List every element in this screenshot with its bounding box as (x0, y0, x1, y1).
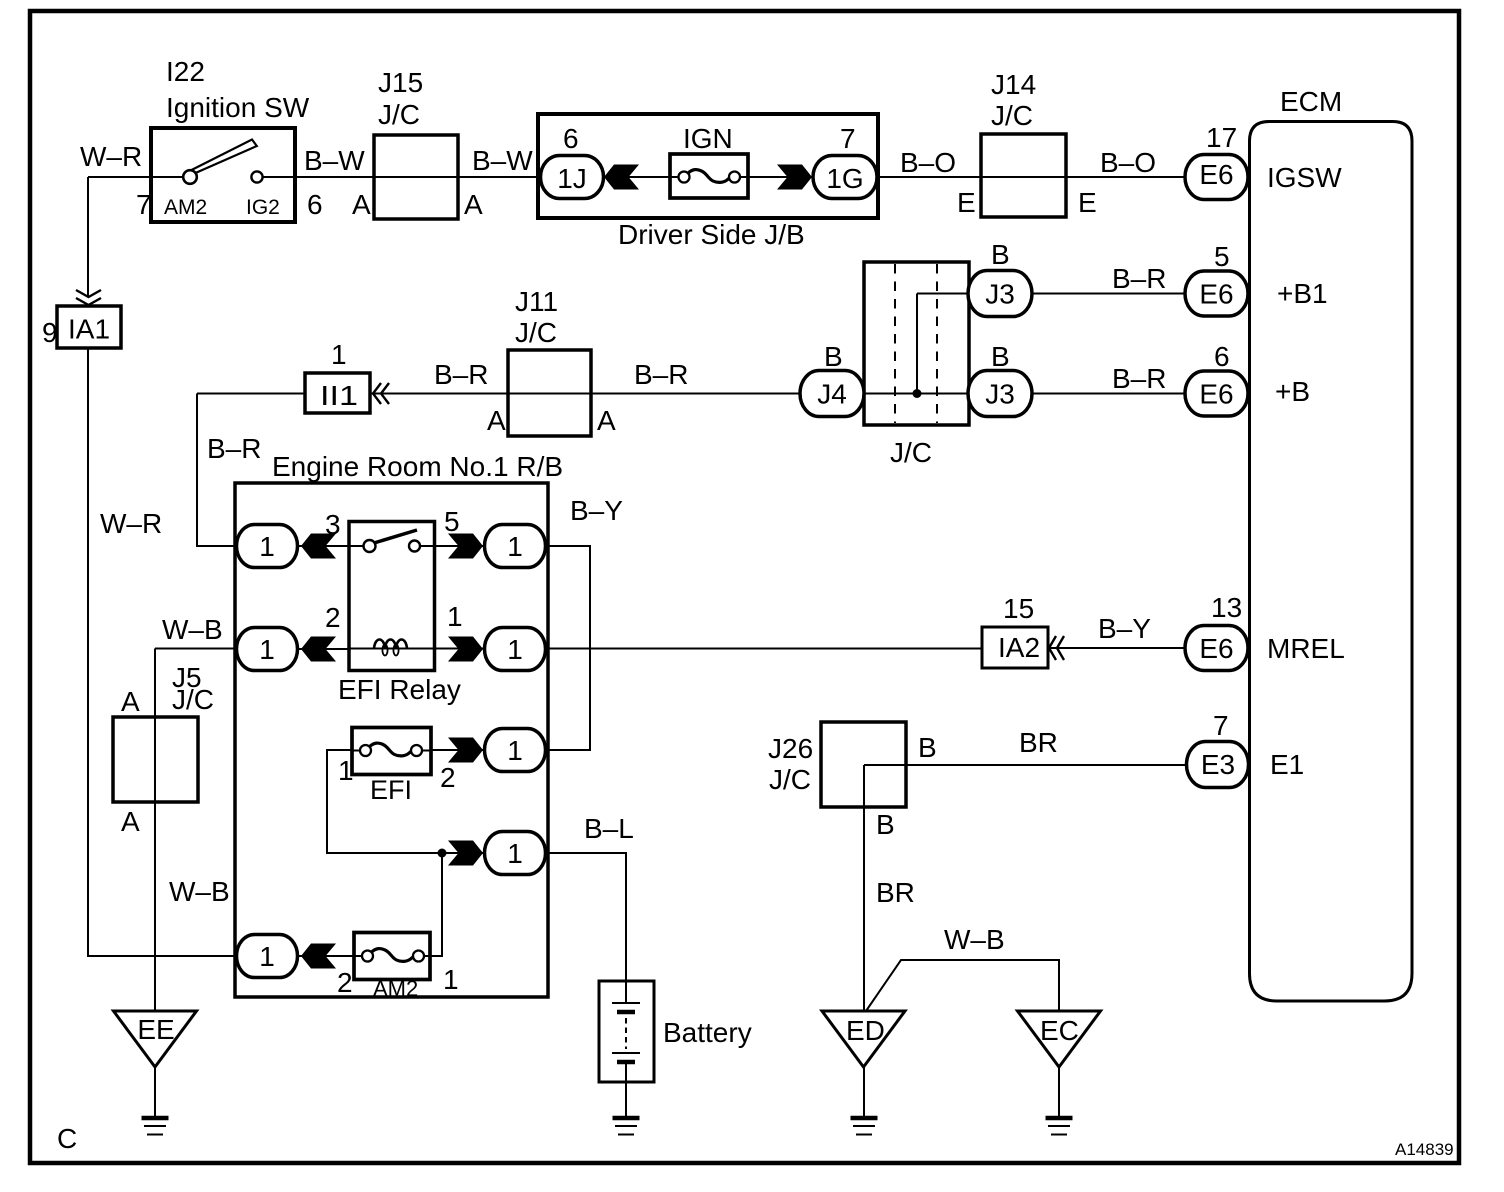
svg-text:B: B (824, 341, 843, 372)
svg-text:B–L: B–L (584, 813, 634, 844)
svg-text:A: A (121, 806, 140, 837)
svg-text:2: 2 (337, 967, 353, 998)
svg-text:J/C: J/C (378, 99, 420, 130)
svg-text:J/C: J/C (515, 317, 557, 348)
svg-text:B–R: B–R (1112, 263, 1166, 294)
svg-text:BR: BR (876, 877, 915, 908)
svg-text:E6: E6 (1199, 159, 1233, 190)
svg-text:E6: E6 (1199, 279, 1233, 310)
svg-text:B–R: B–R (207, 433, 261, 464)
svg-text:J14: J14 (991, 69, 1036, 100)
svg-text:2: 2 (440, 762, 456, 793)
svg-text:B: B (991, 341, 1010, 372)
svg-text:J4: J4 (817, 379, 847, 410)
svg-text:W–R: W–R (100, 508, 162, 539)
svg-text:E: E (1078, 187, 1097, 218)
svg-text:1: 1 (443, 964, 459, 995)
svg-text:A: A (487, 405, 506, 436)
svg-text:15: 15 (1003, 593, 1034, 624)
svg-text:W–B: W–B (169, 876, 230, 907)
svg-text:B–R: B–R (434, 359, 488, 390)
svg-text:MREL: MREL (1267, 633, 1345, 664)
svg-text:EC: EC (1040, 1015, 1079, 1046)
svg-text:B–Y: B–Y (1098, 613, 1151, 644)
svg-text:ED: ED (846, 1015, 885, 1046)
svg-text:5: 5 (444, 506, 460, 537)
svg-text:6: 6 (1214, 341, 1230, 372)
svg-text:B: B (876, 809, 895, 840)
svg-text:J3: J3 (985, 279, 1015, 310)
svg-text:Battery: Battery (663, 1017, 752, 1048)
svg-text:J/C: J/C (769, 764, 811, 795)
svg-text:7: 7 (840, 123, 856, 154)
svg-text:1: 1 (338, 755, 354, 786)
svg-text:1: 1 (447, 601, 463, 632)
svg-text:AM2: AM2 (164, 196, 207, 219)
svg-text:IG2: IG2 (246, 196, 280, 219)
svg-text:1: 1 (507, 531, 523, 562)
svg-text:1: 1 (259, 941, 275, 972)
svg-text:A: A (597, 405, 616, 436)
svg-text:B–O: B–O (900, 147, 956, 178)
svg-text:J/C: J/C (890, 437, 932, 468)
svg-text:J11: J11 (515, 286, 558, 317)
svg-text:3: 3 (325, 509, 341, 540)
svg-text:BR: BR (1019, 727, 1058, 758)
svg-text:B–W: B–W (304, 145, 365, 176)
svg-text:1: 1 (507, 634, 523, 665)
svg-text:13: 13 (1211, 592, 1242, 623)
svg-text:+B1: +B1 (1277, 278, 1328, 309)
svg-text:IA1: IA1 (68, 314, 110, 345)
svg-text:C: C (57, 1123, 77, 1154)
svg-text:E6: E6 (1199, 379, 1233, 410)
svg-text:1: 1 (259, 531, 275, 562)
svg-text:+B: +B (1275, 376, 1310, 407)
svg-text:EE: EE (137, 1014, 174, 1045)
svg-text:IA2: IA2 (998, 632, 1040, 663)
svg-text:6: 6 (563, 123, 579, 154)
svg-text:B–R: B–R (634, 359, 688, 390)
svg-text:B–W: B–W (472, 145, 533, 176)
svg-text:EFI Relay: EFI Relay (338, 674, 461, 705)
svg-text:IGN: IGN (683, 123, 733, 154)
svg-text:B–O: B–O (1100, 147, 1156, 178)
svg-text:W–B: W–B (944, 924, 1005, 955)
svg-text:IGSW: IGSW (1267, 162, 1342, 193)
svg-text:J/C: J/C (172, 684, 214, 715)
svg-text:B–Y: B–Y (570, 495, 623, 526)
svg-text:E1: E1 (1270, 749, 1304, 780)
svg-text:J15: J15 (378, 67, 423, 98)
svg-text:9: 9 (42, 317, 58, 348)
svg-text:1: 1 (331, 339, 347, 370)
svg-text:17: 17 (1206, 122, 1237, 153)
svg-text:A: A (352, 189, 371, 220)
svg-text:1: 1 (507, 838, 523, 869)
svg-text:I22: I22 (166, 56, 205, 87)
svg-text:1G: 1G (826, 163, 863, 194)
svg-text:J26: J26 (768, 733, 813, 764)
svg-text:A14839: A14839 (1395, 1140, 1454, 1159)
svg-text:II1: II1 (320, 380, 358, 411)
svg-text:E6: E6 (1199, 633, 1233, 664)
svg-text:Ignition SW: Ignition SW (166, 92, 310, 123)
svg-text:6: 6 (307, 189, 323, 220)
svg-text:1: 1 (259, 634, 275, 665)
svg-text:Engine Room No.1 R/B: Engine Room No.1 R/B (272, 451, 563, 482)
svg-text:W–R: W–R (80, 141, 142, 172)
svg-text:J3: J3 (985, 379, 1015, 410)
svg-text:2: 2 (325, 602, 341, 633)
svg-text:E3: E3 (1201, 749, 1235, 780)
svg-text:EFI: EFI (370, 775, 412, 805)
svg-text:7: 7 (136, 189, 152, 220)
svg-text:B–R: B–R (1112, 363, 1166, 394)
svg-text:1: 1 (507, 735, 523, 766)
svg-text:B: B (991, 239, 1010, 270)
svg-text:E: E (957, 187, 976, 218)
svg-text:W–B: W–B (162, 614, 223, 645)
svg-text:ECM: ECM (1280, 86, 1342, 117)
svg-text:B: B (918, 732, 937, 763)
svg-text:A: A (121, 686, 140, 717)
svg-text:AM2: AM2 (373, 976, 418, 1001)
svg-text:J/C: J/C (991, 100, 1033, 131)
svg-text:1J: 1J (557, 163, 587, 194)
svg-text:Driver Side J/B: Driver Side J/B (618, 219, 805, 250)
svg-text:7: 7 (1213, 710, 1229, 741)
svg-text:A: A (464, 189, 483, 220)
svg-text:5: 5 (1214, 241, 1230, 272)
